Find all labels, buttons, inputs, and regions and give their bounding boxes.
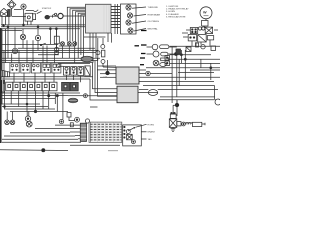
- spark plug 2: [147, 51, 178, 57]
- lamp L2: [35, 35, 40, 40]
- speedo sender box: [202, 21, 209, 29]
- ground symbol: [171, 127, 176, 131]
- svg-text:STARTER: STARTER: [42, 7, 52, 10]
- spark plug 1: [147, 44, 177, 50]
- svg-text:OIL PRESS: OIL PRESS: [148, 21, 160, 23]
- svg-text:TURN IND: TURN IND: [148, 7, 159, 9]
- horn oval: [138, 90, 158, 96]
- small circle mid: [96, 51, 100, 55]
- connector ribbon stripes: [89, 122, 122, 142]
- wire bends into CDI: [90, 58, 117, 107]
- wire top bus: [1, 16, 86, 30]
- wires right band: [146, 46, 220, 103]
- svg-text:5. REGULATOR RE: 5. REGULATOR RE: [166, 15, 186, 18]
- frame left edge line: [0, 28, 2, 143]
- dark dashes ignition: [135, 31, 147, 65]
- ignition switch arc: [37, 11, 58, 19]
- tail light circle: [215, 99, 221, 105]
- indicator lamp box: [121, 4, 137, 34]
- wire below relay row: [2, 73, 93, 83]
- circle near flasher: [68, 94, 117, 98]
- small box right of L2: [40, 29, 59, 53]
- lamp L1: [20, 34, 25, 39]
- legend text block: [166, 6, 189, 18]
- fuse row: [6, 82, 79, 91]
- regulator gray box: [97, 67, 139, 84]
- left small circle: [54, 47, 58, 51]
- wires right of regulator: [139, 70, 220, 77]
- pilot lamp circle: [14, 4, 26, 25]
- connector bar dark: [80, 123, 86, 141]
- flasher oval dark: [81, 56, 93, 62]
- wire mid-left verticals: [2, 27, 57, 84]
- horn H1 diamond: [7, 0, 15, 16]
- wire verticals from fuse panel bottom: [84, 33, 112, 63]
- arrows to labels: [132, 7, 146, 31]
- left verticals at fuse row: [2, 80, 5, 93]
- svg-text:BRAKE: BRAKE: [148, 131, 156, 134]
- handlebar switch cluster: [188, 27, 214, 45]
- tail lamps bottom-left: [5, 116, 64, 127]
- bottom right connector box: [123, 124, 147, 146]
- wires long mid-right: [139, 82, 218, 100]
- svg-text:2. HEADLIGHT RELAY: 2. HEADLIGHT RELAY: [166, 8, 189, 11]
- svg-text:HIGH BEAM: HIGH BEAM: [148, 14, 160, 17]
- small part: [55, 13, 57, 15]
- lamp labels: [148, 7, 160, 31]
- wires right cluster: [182, 30, 218, 46]
- wire below fuse row: [1, 91, 80, 119]
- wire nested bends from fuse panel: [67, 7, 85, 58]
- terminal box: [8, 10, 11, 17]
- battery symbol: [67, 113, 90, 124]
- fuse chain: [101, 38, 105, 67]
- wire bottom horizontals: [0, 123, 120, 152]
- right area small boxes row: [176, 43, 216, 54]
- junction dot mid: [106, 60, 110, 75]
- wire lower-left horizontals: [1, 103, 68, 120]
- junction circle: [54, 50, 58, 54]
- wire fuse panel to indicator box: [111, 4, 120, 34]
- svg-text:NEUTRAL: NEUTRAL: [148, 28, 159, 31]
- fuse panel (gray box): [86, 4, 112, 33]
- flasher oval 2: [68, 98, 78, 102]
- lamp circle mid-right: [153, 58, 169, 67]
- svg-text:4. FLASHER: 4. FLASHER: [166, 13, 179, 16]
- bottom labels: [148, 124, 156, 141]
- wire mid buses: [1, 44, 100, 62]
- speedometer: [200, 7, 212, 21]
- switch cluster mid: [58, 64, 90, 83]
- svg-text:HORN: HORN: [148, 124, 155, 126]
- instrument circle: [12, 48, 17, 53]
- brake switch box: [169, 100, 177, 128]
- main switch circle: [58, 13, 63, 18]
- starter relay box: [25, 10, 38, 25]
- right left-column boxes: [165, 56, 170, 66]
- CDI gray box: [117, 86, 138, 103]
- junction dot right: [175, 100, 179, 116]
- lamp trio: [61, 42, 77, 63]
- svg-text:TAIL: TAIL: [148, 138, 153, 141]
- relay row: [10, 63, 61, 73]
- resistor coil: [177, 122, 205, 127]
- headlamp housing (pentagon): [1, 8, 9, 25]
- left quadrilateral: [1, 70, 10, 77]
